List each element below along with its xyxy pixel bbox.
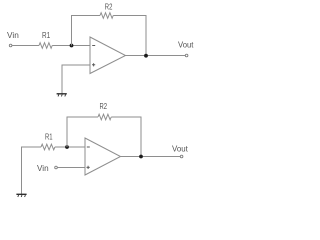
wire R1 to op-amp inverting input (bottom) <box>55 146 85 148</box>
wire op-amp output to Vout (top) <box>126 55 186 57</box>
op-amp U1 (top) <box>90 37 126 74</box>
wire non-inverting input (top) <box>62 65 90 94</box>
terminal Vout (top) <box>185 54 188 57</box>
wire ground riser to R1 (bottom) <box>22 147 42 194</box>
terminal Vout (bottom) <box>180 155 183 158</box>
pin plus U1 (top) <box>92 63 95 66</box>
pin minus U2 (bottom) <box>87 146 90 148</box>
junction output node (bottom) <box>139 155 143 159</box>
svg-text:Vin: Vin <box>37 163 49 173</box>
pin plus U2 (bottom) <box>87 166 90 169</box>
resistor R1 (top) <box>39 43 52 49</box>
terminal Vin (top) <box>9 44 12 47</box>
junction node B (bottom, R1/R2/inverting input) <box>65 145 69 149</box>
svg-text:Vout: Vout <box>178 40 194 50</box>
ground (top circuit) <box>57 94 67 97</box>
wire feedback down to output node (bottom) <box>140 117 142 157</box>
wire feedback down to output node (top) <box>145 15 147 56</box>
wire R1 to op-amp inverting input (top) <box>52 45 90 47</box>
resistor R2 (bottom) <box>98 114 111 120</box>
wire feedback left segment (bottom) <box>67 116 99 118</box>
ground (bottom circuit) <box>16 194 26 197</box>
wire R2 to right corner (bottom) <box>111 116 141 118</box>
resistor R1 (bottom) <box>41 144 55 150</box>
wire Vin to non-inverting input (bottom) <box>57 167 85 169</box>
wire junction B up to feedback (bottom) <box>66 117 68 147</box>
svg-text:Vin: Vin <box>7 30 19 40</box>
wire R2 to right corner (top) <box>113 15 146 17</box>
svg-text:R1: R1 <box>45 131 53 141</box>
wire op-amp output to Vout (bottom) <box>121 156 181 158</box>
resistor R2 (top) <box>100 13 113 19</box>
svg-text:Vout: Vout <box>172 144 188 154</box>
wire junction A up to feedback (top) <box>71 16 73 46</box>
svg-text:R2: R2 <box>100 101 108 111</box>
svg-text:R2: R2 <box>105 2 113 12</box>
op-amp U2 (bottom) <box>85 138 121 175</box>
wire feedback left segment (top) <box>71 15 100 17</box>
pin minus U1 (top) <box>92 45 95 47</box>
wire Vin to R1 (top) <box>12 45 39 47</box>
svg-text:R1: R1 <box>42 30 50 40</box>
junction node A (top, R1/R2/inverting input) <box>70 44 74 48</box>
terminal Vin (bottom) <box>55 166 58 169</box>
junction output node (top) <box>144 54 148 58</box>
